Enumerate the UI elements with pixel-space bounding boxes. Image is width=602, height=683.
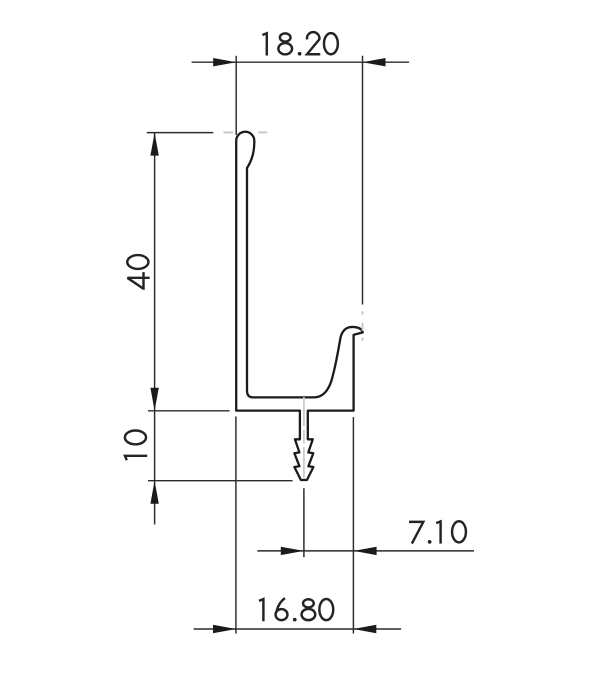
dim 40 arrow up: [150, 133, 158, 156]
dim 16.80 arrow right (outside): [353, 625, 376, 633]
grey centerline through spike: [303, 397, 305, 426]
dim 10 arrow up (outside): [150, 481, 158, 504]
dim 18.20 extension line right: [362, 56, 364, 305]
dim 16.80 extension line right: [352, 417, 354, 634]
dim 18.20 text: [262, 32, 337, 56]
dim 7.10 line: [257, 550, 474, 552]
dim 7.10 arrow right (outside): [354, 547, 377, 555]
dim 18.20 arrow right: [363, 58, 386, 66]
dim 40 text: [127, 255, 149, 290]
dim 40/10 shared tick: [148, 410, 230, 412]
dim 18.20 extension line left: [235, 56, 237, 135]
dim 18.20 arrow left: [213, 58, 236, 66]
dim 18.20 line: [192, 61, 410, 63]
profile outline (aluminium extrusion cross-section with barbed spike): [236, 132, 363, 480]
dim 40 top tick: [147, 132, 214, 134]
dim 16.80 arrow left (outside): [213, 625, 236, 633]
phantom dash-dot at beak tip: [362, 311, 364, 314]
dim 16.80 line: [194, 628, 402, 630]
dim 7.10 arrow left (outside): [281, 547, 304, 555]
dim 16.80 extension line left: [235, 417, 237, 634]
dim 7.10 text: [409, 521, 466, 543]
dim 40 arrow down: [150, 388, 158, 411]
dim 10 text: [125, 430, 147, 460]
dim 16.80 text: [259, 598, 333, 621]
dim 40/10 line: [154, 133, 156, 525]
phantom dash right of cap: [258, 131, 267, 133]
centerline below spike: [303, 488, 305, 557]
phantom dash left of cap: [224, 131, 234, 133]
dim 10 bottom tick: [148, 480, 293, 482]
